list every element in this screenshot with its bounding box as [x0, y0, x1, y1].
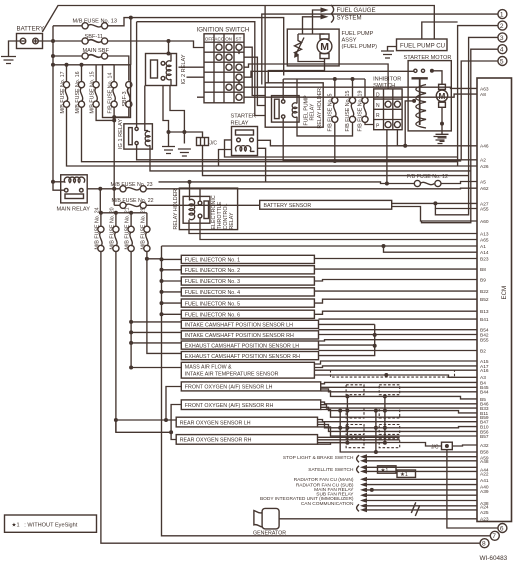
- svg-text:ECM: ECM: [501, 286, 508, 300]
- wire sensor output 10: [319, 334, 478, 336]
- wire sensor output 17: [314, 369, 477, 371]
- wire IG2 bottom outputs to ground bus: [163, 86, 184, 133]
- node 6 circled: [498, 524, 507, 533]
- svg-text:ACC: ACC: [214, 36, 224, 41]
- node 3 circled: [435, 33, 507, 215]
- svg-text:ASSY: ASSY: [342, 38, 357, 44]
- svg-text:FUEL INJECTOR No. 3: FUEL INJECTOR No. 3: [185, 279, 240, 285]
- svg-text:B55: B55: [480, 338, 489, 344]
- svg-text:A62: A62: [480, 186, 489, 192]
- svg-text:A26: A26: [480, 164, 489, 170]
- node 7 circled: [490, 531, 499, 540]
- svg-text:BATTERY: BATTERY: [17, 26, 45, 33]
- svg-text:B41: B41: [480, 317, 489, 323]
- svg-text:FRONT OXYGEN (A/F) SENSOR RH: FRONT OXYGEN (A/F) SENSOR RH: [185, 403, 274, 409]
- generator: [253, 508, 477, 536]
- wire sensor output 29: [318, 425, 478, 432]
- svg-text:INHIBITOR: INHIBITOR: [373, 76, 401, 82]
- wire sensor output 2: [314, 268, 477, 270]
- svg-text:FUEL INJECTOR No. 2: FUEL INJECTOR No. 2: [185, 268, 240, 274]
- node main relay feed: [51, 180, 55, 184]
- svg-text:A32: A32: [480, 443, 489, 449]
- relay holder box (fuel pump relay + fuses): [265, 83, 323, 127]
- svg-text:OFF: OFF: [205, 36, 214, 41]
- wire sensor output 21: [321, 389, 477, 392]
- svg-text:FUEL INJECTOR No. 6: FUEL INJECTOR No. 6: [185, 313, 240, 319]
- fuel pump assy box: [287, 29, 377, 66]
- wire sensor output 27: [318, 420, 478, 422]
- svg-text:B13: B13: [480, 309, 489, 315]
- shield dashed box 1: [331, 370, 455, 377]
- wire fuse15 bus to small fuses: [100, 212, 147, 214]
- svg-text:ON: ON: [225, 36, 232, 41]
- relay IG 1 RELAY: [118, 119, 152, 149]
- shield dashed box 7: [379, 425, 400, 435]
- svg-text:B44: B44: [480, 390, 489, 396]
- junction connector J/C (lower): [431, 442, 498, 528]
- wire battery diagonal to top feed: [42, 6, 434, 40]
- svg-text:6: 6: [500, 525, 504, 532]
- fuse M/B FUSE No. 21: [125, 207, 135, 367]
- wire mass air flow feed: [129, 366, 133, 370]
- svg-text:A5: A5: [480, 179, 486, 185]
- wire sensor output 22: [321, 391, 477, 399]
- svg-text:M/B FUSE No. 22: M/B FUSE No. 22: [112, 198, 154, 204]
- resistor (fuel sender): [294, 34, 304, 59]
- node 5 circled: [461, 57, 507, 160]
- sensor box: REAR OXYGEN SENSOR RH: [176, 435, 317, 445]
- svg-text:A27: A27: [480, 201, 489, 207]
- shield dashed box 5: [379, 408, 400, 418]
- battery sensor: [260, 200, 392, 209]
- bottom arrow labels: [260, 454, 477, 516]
- wire ETC relay feeds: [188, 180, 192, 184]
- ECM box U1: [477, 78, 512, 522]
- relay ELECTRONIC THROTTLE CONTROL RELAY: [183, 195, 235, 229]
- ground (fuel pump CU): [388, 47, 397, 52]
- relay holder box (ETC relay): [173, 188, 238, 230]
- relay STARTER RELAY: [231, 114, 258, 156]
- fuse F/B FUSE No. 12: [159, 174, 478, 187]
- svg-text:SWITCH: SWITCH: [373, 83, 395, 89]
- fuse F/B FUSE No. 19: [358, 79, 374, 132]
- svg-text:3: 3: [500, 35, 504, 42]
- shield dashed box 9: [379, 439, 400, 448]
- node 4 circled: [422, 45, 507, 223]
- svg-text:FUEL INJECTOR No. 4: FUEL INJECTOR No. 4: [185, 290, 240, 296]
- svg-text:A13: A13: [480, 231, 489, 237]
- svg-text:STARTER: STARTER: [231, 114, 257, 120]
- wire battery negative to ground: [9, 41, 21, 57]
- wire sensor output 24: [321, 405, 477, 408]
- node injector feed 1: [160, 257, 164, 261]
- svg-text:FUEL GAUGE: FUEL GAUGE: [337, 7, 376, 14]
- fuel pump CU: [397, 39, 448, 51]
- sensor box: FRONT OXYGEN (A/F) SENSOR LH: [181, 382, 320, 391]
- svg-text:FUEL PUMP: FUEL PUMP: [342, 31, 374, 37]
- svg-text:A1: A1: [480, 244, 486, 250]
- relay FUEL PUMP RELAY: [272, 88, 324, 129]
- svg-text:B58: B58: [480, 449, 489, 455]
- svg-text:RELAY: RELAY: [231, 121, 249, 127]
- wire sensor output 15: [314, 361, 477, 364]
- battery: [17, 26, 45, 49]
- svg-text:R: R: [376, 113, 380, 119]
- node injector feed 2: [160, 268, 164, 272]
- sensor box: FUEL INJECTOR No. 6: [181, 310, 314, 318]
- svg-text:RELAY HOLDER: RELAY HOLDER: [173, 189, 179, 230]
- wire camshaft feed stubs: [129, 257, 181, 370]
- wire sensor output 31: [318, 443, 478, 447]
- ECM pin labels: [480, 86, 489, 522]
- wire sensor output 9: [319, 329, 478, 331]
- wire bundle from ignition to holder: [244, 47, 265, 95]
- svg-text:★1: ★1: [400, 472, 408, 478]
- svg-text:CAN COMMUNICATION: CAN COMMUNICATION: [301, 501, 354, 507]
- wire sensor output 32: [318, 439, 400, 441]
- svg-text:A8: A8: [480, 92, 486, 98]
- svg-text:2: 2: [500, 23, 504, 30]
- svg-text:J/C: J/C: [431, 444, 439, 450]
- fuse M/B FUSE No. 15: [90, 65, 115, 121]
- svg-text:★1: ★1: [381, 468, 389, 474]
- svg-text:7: 7: [492, 533, 496, 540]
- node fuse14 output: [112, 115, 116, 119]
- wire ETC relay outputs: [189, 220, 477, 234]
- svg-text:A55: A55: [480, 206, 489, 212]
- svg-text:IG 2 RELAY: IG 2 RELAY: [181, 54, 187, 84]
- wire sensor output 19: [321, 382, 477, 383]
- svg-text:B23: B23: [480, 256, 489, 262]
- svg-text:A3: A3: [480, 375, 486, 381]
- node 2 circled: [458, 21, 507, 166]
- sensor box: FUEL INJECTOR No. 5: [181, 299, 314, 307]
- svg-text:IG 1 RELAY: IG 1 RELAY: [118, 119, 124, 149]
- svg-text:B2: B2: [480, 348, 486, 354]
- sensor box: FUEL INJECTOR No. 1: [181, 255, 314, 263]
- wires inside fuel pump assy: [298, 34, 325, 66]
- fuse M/B FUSE No. 13: [53, 16, 284, 76]
- wire sensor output 5: [314, 299, 477, 303]
- fuse M/B FUSE No. 25: [140, 207, 161, 258]
- node 8 circled: [480, 539, 489, 548]
- fuse F/B FUSE No. 5: [328, 79, 338, 161]
- svg-text:B22: B22: [480, 289, 489, 295]
- svg-text:5: 5: [500, 58, 504, 65]
- svg-text:EXHAUST CAMSHAFT POSITION SENS: EXHAUST CAMSHAFT POSITION SENSOR RH: [185, 354, 300, 360]
- svg-text:A2: A2: [480, 158, 486, 164]
- starter motor: [404, 55, 452, 134]
- svg-text:1: 1: [500, 12, 504, 19]
- svg-text:A65: A65: [480, 237, 489, 243]
- sensor box: FRONT OXYGEN (A/F) SENSOR RH: [181, 400, 320, 410]
- wire sensor output 26: [321, 410, 477, 418]
- svg-text:B57: B57: [480, 434, 489, 440]
- svg-text:B42: B42: [480, 332, 489, 338]
- wire fuel pump relay bottom bus to A46: [283, 118, 461, 161]
- wire exhaust camshaft LH feed: [129, 341, 133, 345]
- wire sensor output 11: [319, 340, 478, 341]
- fuse F/B FUSE No. 15: [297, 79, 356, 136]
- relay IG 2 RELAY: [146, 54, 188, 86]
- wire ECM pin stubs A63 A8: [244, 87, 477, 88]
- note WITHOUT EyeSight: [5, 515, 97, 532]
- sensor box: INTAKE CAMSHAFT POSITION SENSOR LH: [181, 320, 318, 328]
- node injector feed 5: [160, 301, 164, 305]
- svg-text:A16: A16: [480, 368, 489, 374]
- svg-text:MAIN RELAY: MAIN RELAY: [57, 207, 91, 213]
- wire lower distribution bus: [53, 64, 114, 66]
- svg-text:M: M: [320, 41, 329, 53]
- wire fuel pump relay top bus: [283, 79, 297, 104]
- svg-text:INTAKE CAMSHAFT POSITION SENSO: INTAKE CAMSHAFT POSITION SENSOR LH: [185, 323, 293, 329]
- relay MAIN RELAY: [57, 175, 91, 213]
- wire sensor output 33: [318, 437, 400, 444]
- svg-text:ST: ST: [236, 36, 242, 41]
- svg-text:FUEL PUMP CU: FUEL PUMP CU: [400, 42, 445, 49]
- fuse SBF-3: [114, 82, 132, 118]
- sensor box: FUEL INJECTOR No. 4: [181, 288, 314, 296]
- svg-text:STOP LIGHT & BRAKE SWITCH: STOP LIGHT & BRAKE SWITCH: [283, 455, 354, 461]
- wire fuel pump CU to circled 2: [422, 22, 458, 39]
- wire sensor output 3: [314, 280, 477, 282]
- wire intake camshaft LH feed: [129, 320, 133, 324]
- wire sensor output 4: [314, 290, 477, 292]
- wire inhibitor bottom to F/B fuse 12 line: [387, 130, 404, 184]
- motor M (fuel pump): [317, 34, 332, 59]
- wire starter relay left pins: [219, 140, 458, 166]
- svg-text:REAR OXYGEN SENSOR LH: REAR OXYGEN SENSOR LH: [180, 420, 251, 426]
- svg-text:M/B FUSE No. 13: M/B FUSE No. 13: [73, 19, 117, 25]
- wire sensor output 25: [321, 407, 477, 413]
- sensor boxes: [176, 255, 321, 444]
- svg-text:RELAY: RELAY: [229, 212, 235, 229]
- wire top feed bus F/B fuses: [283, 78, 365, 80]
- wire sensor output 30: [318, 427, 478, 436]
- wire sensor output 14: [319, 324, 375, 355]
- svg-text:INTAKE CAMSHAFT POSITION SENSO: INTAKE CAMSHAFT POSITION SENSOR RH: [185, 333, 294, 339]
- svg-text:B9: B9: [480, 277, 486, 283]
- svg-text:A48: A48: [480, 459, 489, 465]
- wire sensor output 13: [319, 350, 478, 352]
- wire fuel pump feed from relay: [268, 66, 324, 83]
- sensor box: FUEL INJECTOR No. 3: [181, 277, 314, 285]
- sensor box: INTAKE CAMSHAFT POSITION SENSOR RH: [181, 331, 318, 339]
- shield dashed box 2: [346, 385, 364, 395]
- ground (battery): [1, 57, 16, 64]
- shield dashed boxes: [331, 370, 478, 454]
- fuse SBF-11: [82, 34, 204, 48]
- svg-text:MASS AIR FLOW &: MASS AIR FLOW &: [185, 365, 232, 371]
- wire sensor outputs to ECM: [314, 259, 477, 447]
- fuse M/B FUSE No. 24: [94, 207, 480, 543]
- sensor box: MASS AIR FLOW &: [181, 362, 314, 378]
- svg-text:RELAY HOLDER: RELAY HOLDER: [317, 88, 323, 129]
- wire oxygen feeds: [116, 419, 166, 421]
- svg-text:(FUEL PUMP): (FUEL PUMP): [342, 44, 378, 50]
- wire injector rail: [162, 246, 491, 536]
- wire sensor output 18: [314, 375, 477, 377]
- svg-text:N: N: [376, 103, 380, 109]
- wire sensor output 28: [318, 422, 478, 428]
- shield dashed box 8: [346, 439, 364, 448]
- wire IG1 bottom outputs: [137, 145, 477, 171]
- svg-text:SATELLITE SWITCH: SATELLITE SWITCH: [308, 467, 354, 473]
- svg-text:A41: A41: [480, 478, 489, 484]
- svg-text:INTAKE AIR TEMPERATURE SENSOR: INTAKE AIR TEMPERATURE SENSOR: [185, 372, 279, 378]
- shield dashed box 3: [379, 385, 400, 395]
- svg-text:WI-60483: WI-60483: [480, 555, 508, 561]
- sensor box: EXHAUST CAMSHAFT POSITION SENSOR RH: [181, 352, 318, 360]
- svg-text:A23: A23: [480, 517, 489, 523]
- wire sensor output 20: [321, 386, 477, 388]
- node injector feed 4: [160, 290, 164, 294]
- fuse MAIN SBF: [53, 48, 129, 81]
- svg-text:A25: A25: [480, 510, 489, 516]
- node 1 circled: [262, 10, 507, 85]
- svg-text:A24: A24: [480, 504, 489, 510]
- node ignition ground bus: [167, 130, 171, 134]
- wire sensor output 1: [314, 258, 477, 260]
- svg-text:F/B FUSE No. 12: F/B FUSE No. 12: [407, 174, 448, 180]
- shield dashed box 6: [346, 425, 364, 435]
- svg-text:GENERATOR: GENERATOR: [253, 531, 286, 537]
- wire sensor output 7: [319, 318, 478, 320]
- sensor box: EXHAUST CAMSHAFT POSITION SENSOR LH: [181, 341, 318, 349]
- svg-text:RADIATOR FAN CU (MAIN): RADIATOR FAN CU (MAIN): [294, 477, 354, 483]
- fuse M/B FUSE No. 17: [60, 65, 477, 166]
- wire intake camshaft RH feed: [129, 330, 133, 334]
- svg-text:A22: A22: [480, 472, 489, 478]
- fuse M/B FUSE No. 20: [109, 207, 119, 432]
- ignition switch: [179, 27, 415, 103]
- svg-text:FUEL INJECTOR No. 1: FUEL INJECTOR No. 1: [185, 258, 240, 264]
- wire A62 long feed: [190, 187, 478, 190]
- wire battery positive rail: [38, 40, 82, 42]
- fuse F/B FUSE No. 14: [108, 65, 118, 117]
- svg-text:RELAY: RELAY: [310, 103, 316, 120]
- svg-text:EXHAUST CAMSHAFT POSITION SENS: EXHAUST CAMSHAFT POSITION SENSOR LH: [185, 343, 299, 349]
- wire sensor output 23: [321, 402, 477, 404]
- svg-text:A46: A46: [480, 144, 489, 150]
- svg-text:8: 8: [482, 541, 486, 548]
- svg-text:A60: A60: [480, 219, 489, 225]
- sensor box: FUEL INJECTOR No. 2: [181, 266, 314, 274]
- fuse M/B FUSE No. 22: [112, 198, 260, 208]
- svg-text:A63: A63: [480, 86, 489, 92]
- fuse holder box for F/B FUSE No.14 and SBF-3: [103, 65, 131, 118]
- ground (starter motor): [436, 134, 449, 141]
- svg-text:B8: B8: [480, 267, 486, 273]
- wire sensor output 12: [319, 344, 375, 346]
- svg-text:J/C: J/C: [210, 141, 218, 147]
- svg-text:FUEL INJECTOR No. 5: FUEL INJECTOR No. 5: [185, 301, 240, 307]
- svg-text:A14: A14: [480, 250, 489, 256]
- svg-text:IGNITION SWITCH: IGNITION SWITCH: [197, 27, 250, 34]
- wire starter relay to starter motor solenoid: [258, 140, 478, 146]
- svg-text:★1 : WITHOUT EyeSight: ★1 : WITHOUT EyeSight: [12, 522, 78, 529]
- node injector feed 6: [160, 312, 164, 316]
- wire IG2 feed: [168, 41, 170, 54]
- wire exhaust camshaft RH feed: [145, 257, 149, 261]
- svg-text:M: M: [439, 92, 446, 101]
- node battery junction: [51, 39, 55, 43]
- wire battery sensor outputs: [392, 202, 477, 204]
- svg-text:A39: A39: [480, 489, 489, 495]
- fuse M/B FUSE No. 23: [87, 182, 189, 192]
- node injector feed 3: [160, 279, 164, 283]
- svg-text:SYSTEM: SYSTEM: [337, 15, 362, 22]
- wire sensor output 8: [319, 323, 375, 325]
- sensor box: REAR OXYGEN SENSOR LH: [176, 417, 317, 427]
- svg-text:B52: B52: [480, 297, 489, 303]
- junction connector J/C (upper): [184, 132, 468, 176]
- wire battery vertical rail: [52, 26, 54, 65]
- svg-text:REAR OXYGEN SENSOR RH: REAR OXYGEN SENSOR RH: [180, 438, 252, 444]
- inhibitor switch: [373, 76, 402, 129]
- wire injector feed stubs: [160, 257, 182, 316]
- svg-text:4: 4: [500, 47, 504, 54]
- wire sensor output 16: [314, 366, 477, 368]
- shield dashed box 4: [346, 408, 364, 418]
- wire IG1 feeds: [137, 22, 148, 131]
- svg-text:FRONT OXYGEN (A/F) SENSOR LH: FRONT OXYGEN (A/F) SENSOR LH: [185, 385, 273, 391]
- fuel gauge system arrows: [303, 5, 376, 34]
- ground (IG relays): [162, 147, 175, 154]
- wire sensor output 6: [314, 311, 477, 314]
- svg-text:BATTERY SENSOR: BATTERY SENSOR: [264, 203, 312, 209]
- fuse M/B FUSE No. 16: [75, 65, 458, 162]
